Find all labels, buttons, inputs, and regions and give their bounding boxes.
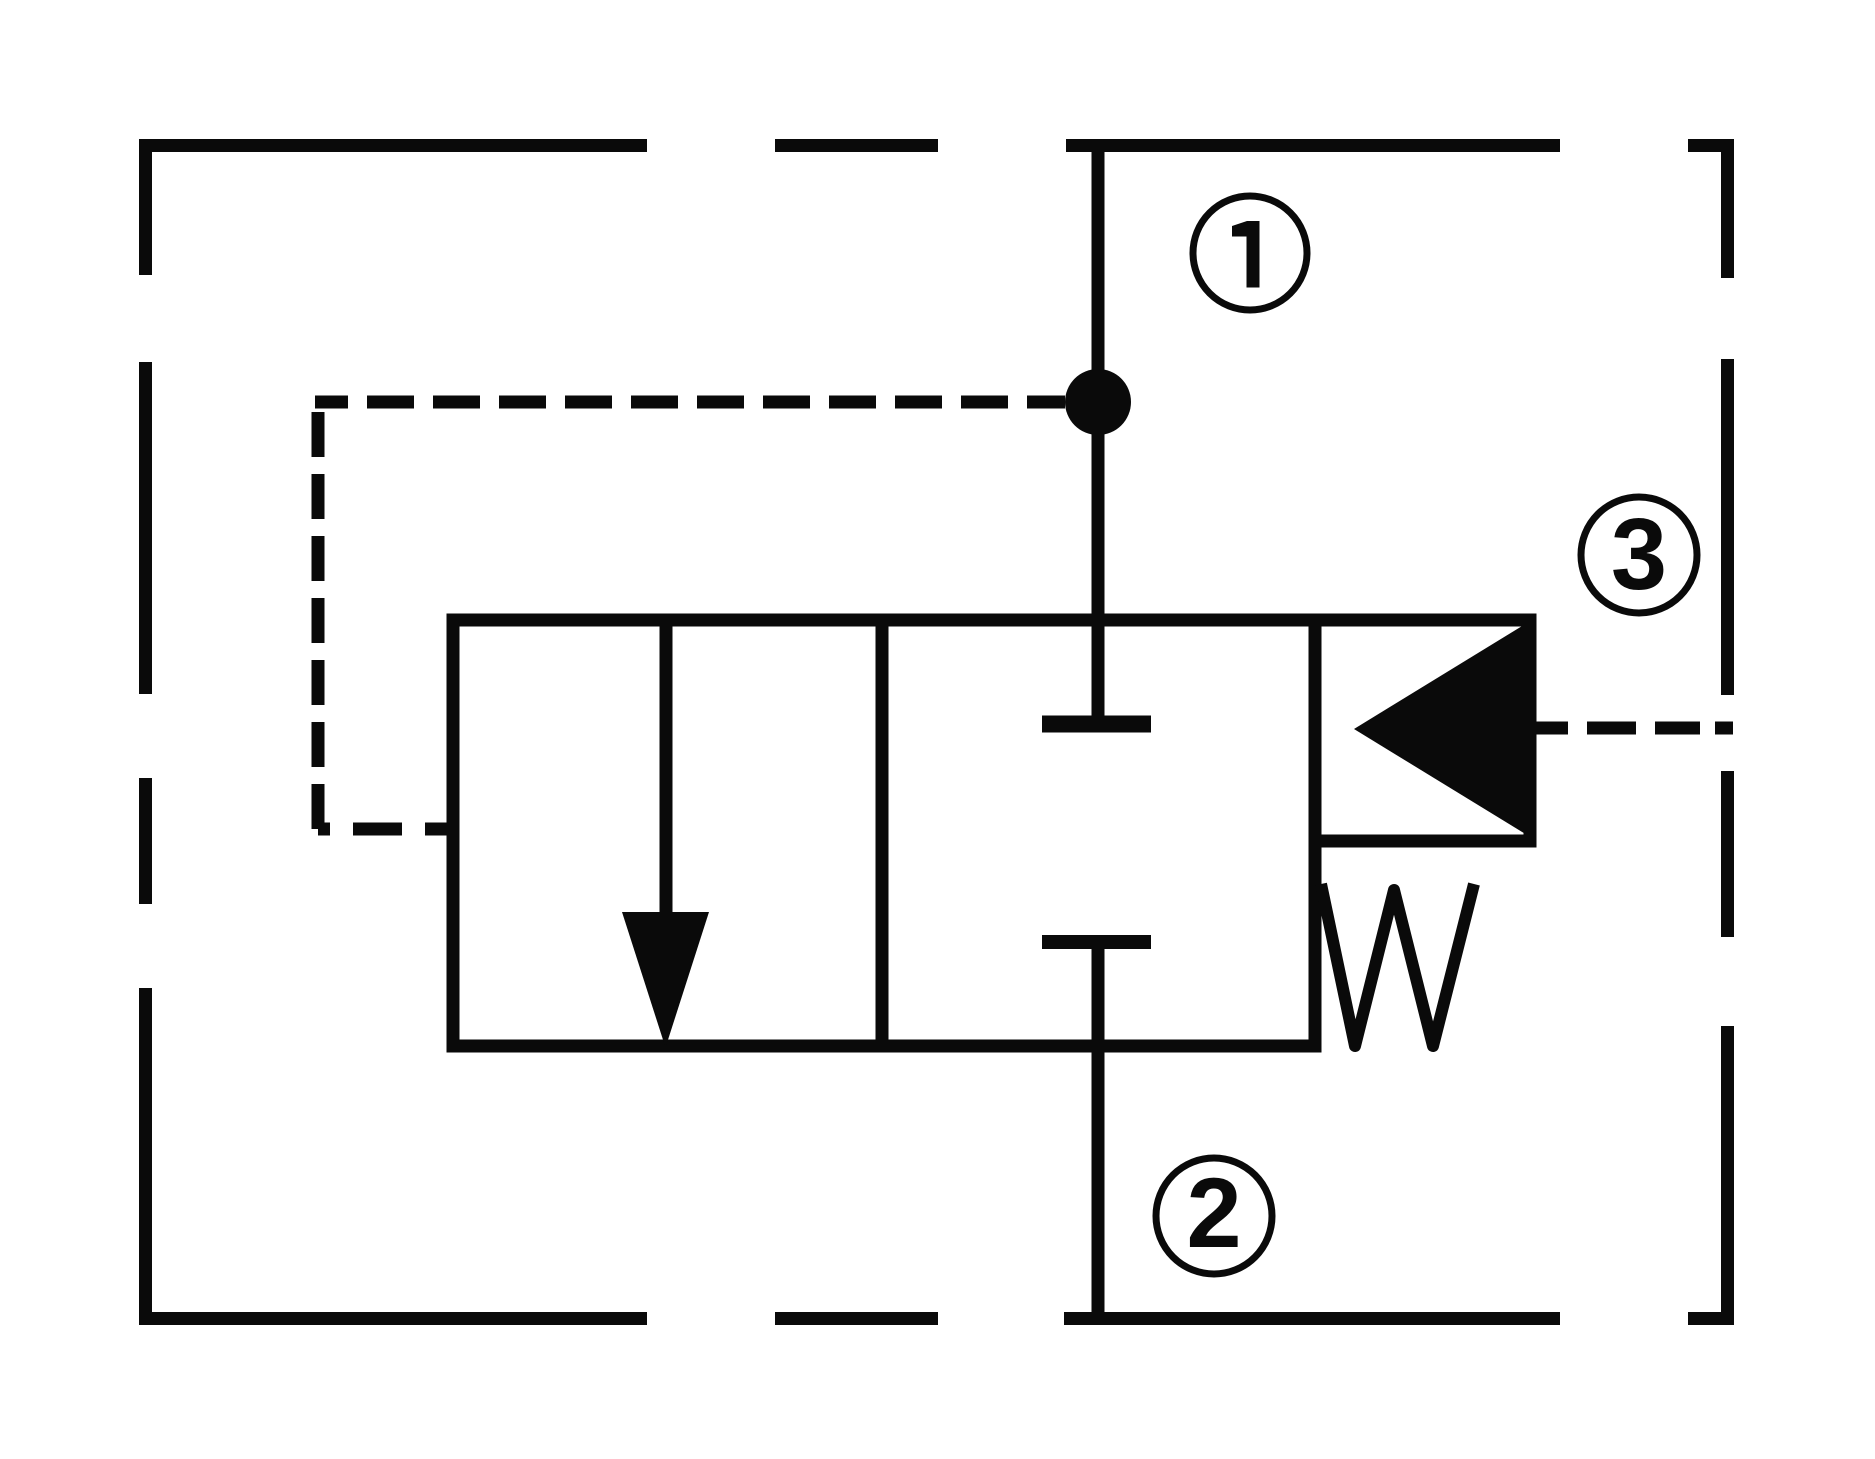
svg-text:3: 3 <box>1611 499 1667 611</box>
svg-text:2: 2 <box>1186 1157 1241 1268</box>
